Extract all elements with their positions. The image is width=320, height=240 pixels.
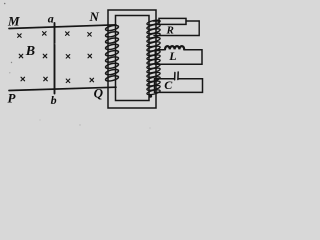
wire R branch top <box>153 20 199 22</box>
field cross x22 <box>43 54 47 58</box>
scan speck <box>40 120 41 121</box>
scan speck <box>55 43 56 44</box>
field cross x32 <box>44 77 48 81</box>
resistor R box <box>159 18 186 24</box>
svg-text:b: b <box>51 93 57 107</box>
field cross x12 <box>43 32 47 36</box>
scan speck <box>11 62 12 63</box>
svg-text:Q: Q <box>94 86 104 101</box>
scan speck <box>79 124 80 125</box>
field cross x11 <box>18 34 22 38</box>
field cross x21 <box>19 54 23 58</box>
field cross x24 <box>88 54 92 58</box>
svg-text:B: B <box>25 44 35 59</box>
scan speck <box>149 127 150 128</box>
rod ab <box>54 23 56 94</box>
wire top rail M-N <box>9 25 116 29</box>
wire R branch right+bottom <box>154 21 199 36</box>
wire bottom rail P-Q <box>9 87 116 90</box>
transformer core outer <box>108 10 156 108</box>
transformer core inner <box>116 16 150 101</box>
inductor L bumps <box>165 46 184 49</box>
primary winding <box>105 24 119 82</box>
capacitor C plates <box>175 72 179 80</box>
svg-text:M: M <box>7 14 20 29</box>
svg-text:R: R <box>166 25 174 37</box>
labels <box>7 9 177 107</box>
field cross x33 <box>66 79 70 83</box>
wire L branch rectangle <box>155 50 202 64</box>
field cross x34 <box>90 78 94 82</box>
svg-text:P: P <box>8 91 17 106</box>
scan speck <box>9 72 10 73</box>
field cross x31 <box>21 77 25 81</box>
svg-text:L: L <box>168 49 176 63</box>
svg-text:N: N <box>89 9 100 24</box>
junction dot <box>149 94 152 97</box>
field cross x23 <box>66 55 70 59</box>
svg-text:C: C <box>164 78 173 92</box>
wire C branch rectangle <box>155 79 203 93</box>
scan speck <box>4 3 6 5</box>
svg-text:a: a <box>48 11 54 25</box>
field cross x13 <box>66 32 70 36</box>
field cross x14 <box>88 33 92 37</box>
secondary winding <box>146 19 160 96</box>
